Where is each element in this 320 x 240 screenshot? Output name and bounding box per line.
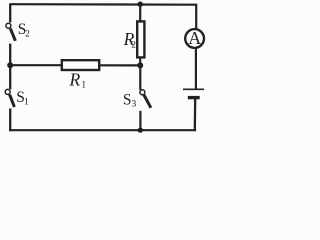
- wire R2 top lead: [139, 4, 141, 21]
- svg-text:1: 1: [81, 80, 86, 90]
- svg-text:3: 3: [132, 100, 137, 110]
- wire battery to bottom rail: [194, 98, 197, 131]
- wire S3 top lead: [139, 65, 141, 90]
- switch S1: [5, 89, 29, 108]
- wire middle horizontal right of R1: [100, 64, 140, 66]
- battery cell: short negative plate: [188, 96, 200, 99]
- wire top rail: [10, 3, 196, 6]
- resistor R2: [123, 21, 145, 57]
- node junction bottom of S3 branch: [138, 128, 143, 133]
- switch S3: [123, 90, 151, 110]
- svg-text:2: 2: [25, 29, 30, 39]
- wire left rail lower segment: [9, 108, 11, 131]
- wire right rail upper segment: [195, 4, 197, 29]
- svg-text:S: S: [123, 92, 132, 109]
- node junction middle (R2 / S3): [137, 62, 143, 68]
- battery cell: long positive plate: [183, 88, 204, 90]
- wire left rail middle segment: [9, 44, 11, 90]
- wire bottom rail: [9, 129, 196, 131]
- wire left rail upper segment: [9, 3, 11, 22]
- ammeter A: [185, 28, 204, 48]
- node junction top of R2 branch: [138, 1, 143, 6]
- wire ammeter to battery: [195, 49, 197, 89]
- svg-text:A: A: [188, 28, 201, 48]
- resistor R1: [62, 60, 99, 90]
- wire middle horizontal left of R1: [10, 64, 62, 66]
- svg-text:2: 2: [131, 40, 136, 50]
- svg-text:1: 1: [24, 97, 29, 107]
- switch S2: [6, 21, 30, 41]
- node junction left (R1 branch): [7, 62, 13, 68]
- wire R2 bottom lead: [139, 57, 141, 65]
- wire S3 bottom lead: [139, 111, 141, 130]
- svg-text:R: R: [69, 70, 81, 90]
